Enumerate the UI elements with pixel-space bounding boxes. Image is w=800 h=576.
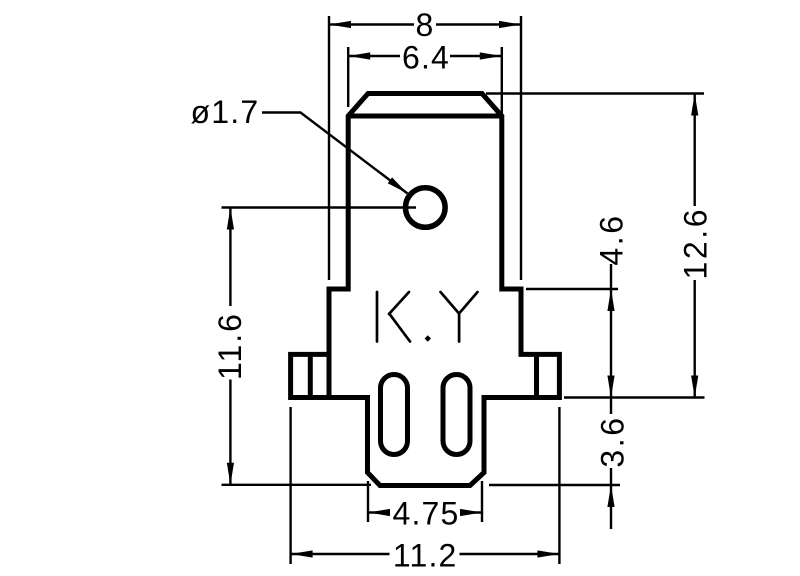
arrow 8 right [499, 21, 521, 28]
arrow 12.6 bottom [691, 376, 698, 398]
ext line 8 left [328, 16, 330, 280]
left wing divider [308, 354, 313, 397]
ext line 4.75 right [481, 481, 483, 522]
dim line 4.6 [610, 264, 612, 398]
leader line d1.7 [262, 113, 408, 194]
stamped text K [376, 292, 379, 342]
ext line wing bottom right [564, 396, 705, 398]
ext line 6.4 left [347, 47, 349, 107]
ext line 11.2 left [289, 407, 291, 564]
arrow 3.6 bottom [607, 485, 614, 507]
ext line bottom left (11.6) [222, 484, 372, 486]
dim line 12.6 [694, 94, 696, 207]
arrow 6.4 right [480, 52, 502, 59]
svg-text:4.6: 4.6 [594, 213, 630, 265]
right slot [443, 375, 470, 455]
arrow 4.6 top [607, 289, 614, 311]
dim line 8 [329, 23, 414, 25]
arrow 4.75 left [368, 509, 390, 516]
ext line 11.2 right [558, 407, 560, 564]
stamped period dot [425, 335, 431, 341]
ext line 4.75 left [367, 481, 369, 522]
ext line 6.4 right [501, 47, 503, 128]
dim line 11.2 [291, 553, 390, 555]
svg-text:12.6: 12.6 [678, 207, 714, 280]
ext line bottom right (3.6) [489, 484, 620, 486]
stamped text Y [441, 292, 460, 314]
dim line 6.4 [348, 55, 400, 57]
svg-text:4.75: 4.75 [392, 495, 459, 531]
arrow 4.75 right [460, 509, 482, 516]
arrow 12.6 top [691, 94, 698, 116]
dim line 3.6 [610, 398, 612, 415]
svg-text:6.4: 6.4 [402, 39, 450, 75]
dim line 11.6 [229, 208, 231, 307]
svg-text:ø1.7: ø1.7 [191, 94, 260, 130]
svg-text:11.6: 11.6 [212, 312, 248, 380]
right wing divider [534, 354, 539, 397]
left slot [381, 375, 408, 455]
svg-text:8: 8 [416, 7, 435, 43]
dim line 4.75 [368, 511, 389, 513]
hole d1.7 [406, 188, 446, 228]
body left edge lower [327, 354, 332, 397]
ext line 8 right [520, 16, 522, 280]
arrow 11.6 bottom [227, 463, 234, 485]
svg-text:3.6: 3.6 [595, 415, 631, 467]
arrow 4.6 bottom / 3.6 top [607, 376, 614, 398]
arrow 11.2 right [537, 550, 559, 557]
ext line step right (4.6) [526, 288, 618, 290]
part outline: terminal body [291, 94, 560, 486]
arrow 11.6 top [227, 208, 234, 230]
arrow 11.2 left [291, 550, 313, 557]
leader arrow d1.7 [388, 177, 408, 193]
ext line top right (12.6) [486, 92, 704, 94]
tab shoulder fold line [348, 114, 502, 119]
arrow 8 left [329, 21, 351, 28]
arrow 6.4 left [348, 52, 370, 59]
svg-text:11.2: 11.2 [393, 537, 458, 573]
ext line hole center left [222, 206, 417, 208]
